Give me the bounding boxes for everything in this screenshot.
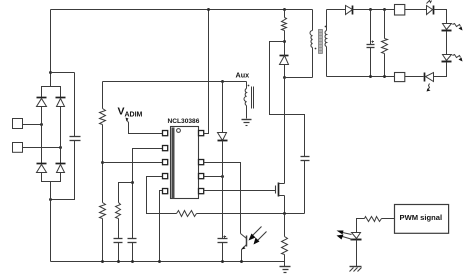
- pin 10 right HV: [199, 131, 204, 136]
- arrow D9 photon: [453, 24, 463, 31]
- wire aux diode drop: [222, 82, 224, 133]
- node J1 junction: [40, 123, 43, 126]
- wire output top: [353, 9, 395, 11]
- ground aux: [242, 120, 252, 126]
- arrow opto light 2: [254, 232, 267, 245]
- wire DRV gate wire: [204, 190, 276, 192]
- wire HV startup riser: [204, 10, 209, 134]
- node rail c4: [221, 260, 224, 263]
- node rail r2: [101, 260, 104, 263]
- node cap top: [369, 8, 372, 11]
- wire J1 to bridge: [23, 124, 42, 126]
- node rail gndpin: [158, 260, 161, 263]
- pin 7 right VCC: [199, 174, 204, 179]
- ground main: [280, 262, 291, 273]
- node res bottom: [383, 75, 386, 78]
- wire FB to opto: [204, 163, 241, 234]
- wire CS to source node: [197, 213, 305, 215]
- svg-text:PWM signal: PWM signal: [400, 213, 443, 222]
- arrow D11 photon: [427, 84, 431, 92]
- node source junction: [283, 212, 286, 215]
- wire left HV riser: [50, 10, 52, 87]
- pin 6 right DRV: [199, 189, 204, 194]
- wire drain: [284, 78, 286, 184]
- node res top: [383, 8, 386, 11]
- PWM signal box: [395, 205, 449, 234]
- capacitor C2: [114, 239, 123, 262]
- wire primary bottom: [285, 77, 313, 79]
- svg-text:ADIM: ADIM: [125, 112, 143, 119]
- node secondary polarity dot: [325, 26, 327, 28]
- arrow led light 2: [337, 235, 353, 240]
- wire divider drop: [102, 82, 104, 109]
- aux winding: [244, 82, 247, 119]
- node cap return tee: [49, 198, 52, 201]
- wire D9 to D10: [446, 32, 448, 55]
- wire R4 to D5: [284, 31, 286, 56]
- node rail c3: [131, 260, 134, 263]
- wire CS pin wire: [147, 177, 177, 214]
- capacitor C3: [128, 239, 137, 262]
- pin 1 left ADIM: [163, 131, 168, 136]
- pin 4 left CS: [163, 174, 168, 179]
- pin 8 right FB: [199, 160, 204, 165]
- LED D12 opto emitter: [351, 233, 362, 267]
- resistor R5 sense: [282, 237, 288, 255]
- wire bulk cap tap: [51, 72, 75, 74]
- arrow VADIM head: [126, 118, 129, 122]
- transistor U2 phototransistor: [241, 234, 247, 262]
- wire D5 to drain node: [284, 65, 286, 78]
- wire sense to rail: [284, 255, 286, 262]
- arrow D10 photon: [453, 55, 463, 62]
- connector box1: [395, 5, 405, 16]
- wire top rail: [51, 9, 313, 11]
- wire R7 to LED: [357, 219, 365, 233]
- transistor Q1 MOSFET: [276, 183, 285, 197]
- wire comp branch: [119, 183, 133, 203]
- diode D4: [56, 164, 66, 173]
- wire source to sense: [284, 214, 286, 237]
- connector box2: [395, 73, 405, 82]
- svg-text:NCL30386: NCL30386: [168, 118, 200, 125]
- diode D5 clamp: [280, 56, 289, 65]
- transformer T1 secondary: [325, 10, 326, 77]
- wire D8 to corner: [434, 10, 447, 24]
- capacitor C4 VCC: [218, 236, 228, 262]
- node comp tee: [131, 181, 134, 184]
- wire clamp lead: [284, 10, 286, 18]
- LED D10: [442, 55, 452, 62]
- node cap bottom: [369, 75, 372, 78]
- wire bridge bottom connector: [42, 173, 61, 182]
- wire GND pin drop: [160, 191, 163, 262]
- wire aux sense line: [103, 81, 247, 83]
- resistor R3: [116, 203, 121, 219]
- arrow led light 1: [337, 231, 352, 235]
- node J2 junction: [59, 146, 62, 149]
- svg-text:V: V: [118, 106, 125, 118]
- diode D3: [37, 164, 47, 173]
- capacitor C1 bulk: [51, 73, 81, 200]
- wire D6 to VCC cap: [222, 141, 224, 239]
- wire divider mid: [102, 125, 104, 203]
- resistor R7: [365, 217, 382, 222]
- node aux tap: [221, 80, 224, 83]
- pin 3 left ZCD: [163, 160, 168, 165]
- pin 2 left COMP: [163, 146, 168, 151]
- aux core: [252, 87, 254, 109]
- wire bottom rail: [51, 261, 285, 263]
- node divider tap: [101, 161, 104, 164]
- terminal J2: [13, 143, 23, 153]
- resistor R6 output: [382, 10, 388, 77]
- label VADIM: [118, 106, 143, 119]
- node rail opto: [240, 260, 243, 263]
- arrow D8 photon: [427, 1, 432, 4]
- wire box to R7: [382, 218, 395, 220]
- wire ZCD pin wire: [103, 162, 163, 164]
- wire bridge top connector: [42, 87, 61, 98]
- node clamp rail: [283, 8, 286, 11]
- diode D1: [37, 98, 47, 107]
- wire J2 to bridge: [23, 147, 61, 149]
- LED D9: [442, 24, 452, 31]
- svg-text:Aux: Aux: [236, 71, 250, 80]
- diode D7 rectifier: [346, 6, 353, 15]
- wire divider bottom: [102, 219, 104, 262]
- wire clamp cap loop: [270, 42, 305, 157]
- node VCC junction: [221, 175, 224, 178]
- node drain tee: [283, 76, 286, 79]
- diode D2: [56, 98, 66, 107]
- diode D6 vcc charge: [218, 133, 228, 141]
- ground earth pwm: [350, 267, 362, 272]
- capacitor C6 output: [367, 10, 375, 77]
- wire VCC pin wire: [204, 176, 223, 178]
- capacitor C5 clamp: [301, 157, 310, 214]
- resistor R1: [100, 109, 106, 125]
- transformer T1 core: [319, 30, 323, 54]
- wire bridge return: [50, 182, 52, 262]
- node aux polarity dot: [248, 85, 250, 87]
- node rail c2: [117, 260, 120, 263]
- transformer T1 primary: [310, 10, 313, 78]
- wire bridge mid left: [41, 107, 43, 164]
- arrow opto light 1: [249, 227, 262, 241]
- IC U1 NCL30386 body: [171, 127, 199, 199]
- wire COMP pin wire: [133, 149, 163, 239]
- wire secondary top: [327, 9, 346, 11]
- diode D8 string top: [427, 6, 434, 15]
- LED D11 return: [425, 73, 434, 82]
- wire box1 to D8: [405, 9, 427, 11]
- node startup on rail: [207, 8, 210, 11]
- node clamp B: [283, 40, 286, 43]
- wire VADIM pointer: [127, 120, 163, 134]
- wire bridge mid right: [60, 107, 62, 164]
- wire R3 to C2: [118, 219, 120, 239]
- resistor R8 CS series: [177, 211, 197, 217]
- terminal J1: [13, 119, 23, 129]
- node bulk cap tee: [49, 71, 52, 74]
- wire D11 to box2: [405, 76, 424, 78]
- pin 5 left GND: [163, 189, 168, 194]
- wire D10 to corner: [434, 63, 447, 77]
- wire output bottom: [327, 76, 395, 78]
- resistor R4 clamp: [282, 18, 287, 31]
- resistor R2: [100, 203, 106, 219]
- wire source: [284, 196, 286, 214]
- node primary polarity dot: [315, 48, 317, 50]
